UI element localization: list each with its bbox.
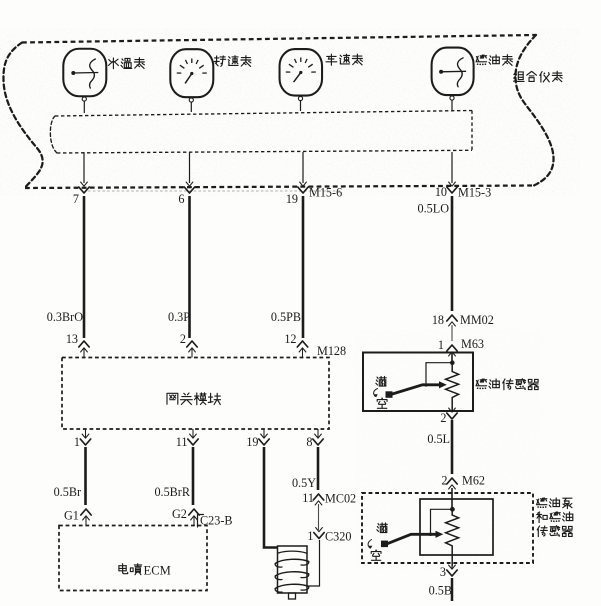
connector pin 13 (M128) <box>79 341 89 347</box>
svg-text:G2: G2 <box>172 507 187 521</box>
svg-text:1: 1 <box>307 529 313 543</box>
wire 0.5BrR <box>192 447 195 505</box>
connector pin 12 (M128) <box>297 341 307 347</box>
svg-text:2: 2 <box>180 332 186 346</box>
connector pin 11 (M128 bottom) <box>188 439 198 445</box>
connector pin 3 (pump bottom) <box>447 570 457 576</box>
inter-connector wire <box>318 504 320 530</box>
svg-text:11: 11 <box>176 435 188 449</box>
label 满 (full) <box>377 523 387 533</box>
wire from gauge column at x=452 <box>451 152 453 183</box>
wire 0.3P <box>188 196 191 338</box>
junction node <box>450 507 455 512</box>
gateway module 网关模块 box <box>62 358 329 430</box>
wire 0.5LO (to fuel sensor) <box>451 196 454 311</box>
connector pin 1 M63 <box>447 345 457 351</box>
junction node <box>450 360 455 365</box>
svg-text:6: 6 <box>178 192 184 206</box>
connector pin G1 (ECM) <box>81 509 91 515</box>
fuel pump and sender dashed box 燃油泵和燃油传感器 <box>362 493 533 563</box>
svg-text:0.5Y: 0.5Y <box>292 476 316 490</box>
svg-text:M15-6: M15-6 <box>309 186 342 200</box>
connector pin 6 M15 (cluster exit) <box>184 187 194 193</box>
svg-text:0.5L: 0.5L <box>427 432 450 446</box>
svg-text:13: 13 <box>66 332 78 346</box>
svg-text:M62: M62 <box>462 474 485 488</box>
svg-text:19: 19 <box>246 435 258 449</box>
wire 0.5Y <box>317 447 320 490</box>
wire 0.3BrO <box>83 196 86 338</box>
wire C320 to pump <box>307 540 320 586</box>
wire from pin 19 to fuel pump motor <box>264 447 278 548</box>
svg-text:ECM: ECM <box>144 564 171 578</box>
svg-text:1: 1 <box>74 435 80 449</box>
connector pin 8 (M128 bottom) <box>313 439 323 445</box>
fuel pump motor (coil) <box>278 546 308 593</box>
gauge: fuel gauge 燃油表 <box>432 48 474 96</box>
wiper feed wire <box>426 363 452 385</box>
svg-text:12: 12 <box>284 332 296 346</box>
svg-text:19: 19 <box>286 192 298 206</box>
arc arrow full-empty <box>368 540 371 549</box>
label 燃油泵 和燃油 传感器 <box>537 498 547 505</box>
connector pin 2 (M128) <box>187 341 197 347</box>
svg-text:0.5PB: 0.5PB <box>271 310 301 324</box>
connector pin 1 (M128 bottom) <box>80 439 90 445</box>
gauge: speedometer 车速表 <box>280 49 323 96</box>
wire into pump module <box>451 488 453 509</box>
svg-text:18: 18 <box>432 313 444 327</box>
arc arrow full-empty <box>374 389 378 397</box>
label 满 (full) <box>376 376 386 386</box>
svg-text:0.5B: 0.5B <box>429 584 452 598</box>
svg-text:10: 10 <box>435 185 447 199</box>
svg-text:8: 8 <box>306 435 312 449</box>
connector pin 2 M62 <box>447 478 457 484</box>
variable resistor element <box>446 511 459 567</box>
svg-text:11: 11 <box>302 491 314 505</box>
connector pin 10 M15-3 (cluster exit) <box>447 187 457 193</box>
inner sender box <box>420 499 493 555</box>
wiper feed wire <box>431 509 453 534</box>
svg-text:0.5LO: 0.5LO <box>418 202 450 216</box>
svg-text:2: 2 <box>441 474 447 488</box>
label 燃油传感器 <box>476 379 487 386</box>
fuel sender unit box 燃油传感器 <box>363 353 473 412</box>
connector label C23-B with bracket <box>198 515 204 528</box>
gauge: tachometer 转速表 <box>170 49 213 97</box>
connector pin 11 MC02 <box>313 494 323 500</box>
variable resistor element <box>446 364 459 412</box>
svg-text:0.5BrR: 0.5BrR <box>154 485 190 499</box>
svg-text:3: 3 <box>440 565 446 579</box>
wiper arm with arrow <box>386 391 393 398</box>
connector pin 19 M15-6 (cluster exit) <box>298 187 308 193</box>
inter-connector wire <box>451 325 453 341</box>
svg-text:0.5Br: 0.5Br <box>54 485 81 499</box>
wiper arm with arrow <box>381 541 388 548</box>
connector pin 1 C320 <box>314 533 324 539</box>
connector pin 2 (sender bottom) <box>447 413 457 419</box>
label 空 (empty) <box>371 552 381 561</box>
svg-text:MM02: MM02 <box>460 313 494 327</box>
connector pin G2 (ECM) <box>189 509 199 515</box>
instrument cluster 组合仪表 dashed outline <box>22 35 536 43</box>
svg-text:G1: G1 <box>64 509 79 523</box>
wire from gauge column at x=84 <box>83 152 85 183</box>
svg-text:M63: M63 <box>461 337 484 351</box>
faint connector grouping line <box>88 190 340 192</box>
svg-text:1: 1 <box>438 338 444 352</box>
svg-text:0.3P: 0.3P <box>168 310 190 324</box>
label 空 (empty) <box>377 400 387 409</box>
connector pin 18 MM02 <box>447 315 457 321</box>
svg-text:C320: C320 <box>325 530 351 544</box>
svg-text:MC02: MC02 <box>325 492 356 506</box>
wire 0.5L <box>451 420 454 474</box>
cluster internal connector strip <box>55 111 472 117</box>
svg-text:M15-3: M15-3 <box>458 186 491 200</box>
svg-text:0.3BrO: 0.3BrO <box>47 310 83 324</box>
wire from gauge column at x=303 <box>302 152 304 183</box>
EFI ECM box 电喷ECM <box>59 526 207 591</box>
connector pin 7 M15 (cluster exit) <box>79 187 89 193</box>
cluster label 组合仪表 <box>514 72 525 82</box>
svg-text:7: 7 <box>73 192 79 206</box>
gauge: water temperature 水温表 <box>63 49 106 97</box>
wire 0.5PB <box>302 196 305 338</box>
svg-text:2: 2 <box>440 411 446 425</box>
svg-text:M128: M128 <box>317 344 346 358</box>
connector pin 19 (M128 bottom) <box>259 439 269 445</box>
wire into sender <box>451 352 453 362</box>
wire from gauge column at x=189.5 <box>189 152 191 183</box>
wire 0.5Br <box>84 447 87 505</box>
